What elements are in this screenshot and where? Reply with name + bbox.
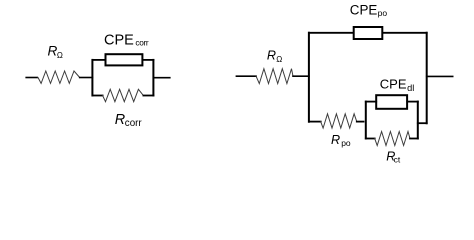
svg-text:po: po: [378, 8, 388, 18]
svg-text:CPE: CPE: [350, 3, 378, 18]
svg-text:dl: dl: [407, 83, 414, 93]
svg-text:R: R: [115, 112, 125, 128]
svg-text:ct: ct: [394, 155, 401, 165]
svg-text:R: R: [331, 133, 340, 147]
svg-text:corr: corr: [125, 118, 143, 129]
svg-text:CPE: CPE: [380, 76, 407, 91]
svg-text:Ω: Ω: [276, 55, 282, 64]
svg-text:R: R: [267, 48, 276, 62]
svg-text:po: po: [341, 138, 351, 148]
svg-text:CPE: CPE: [104, 33, 134, 49]
svg-text:corr: corr: [135, 38, 148, 48]
svg-text:Ω: Ω: [57, 51, 63, 60]
